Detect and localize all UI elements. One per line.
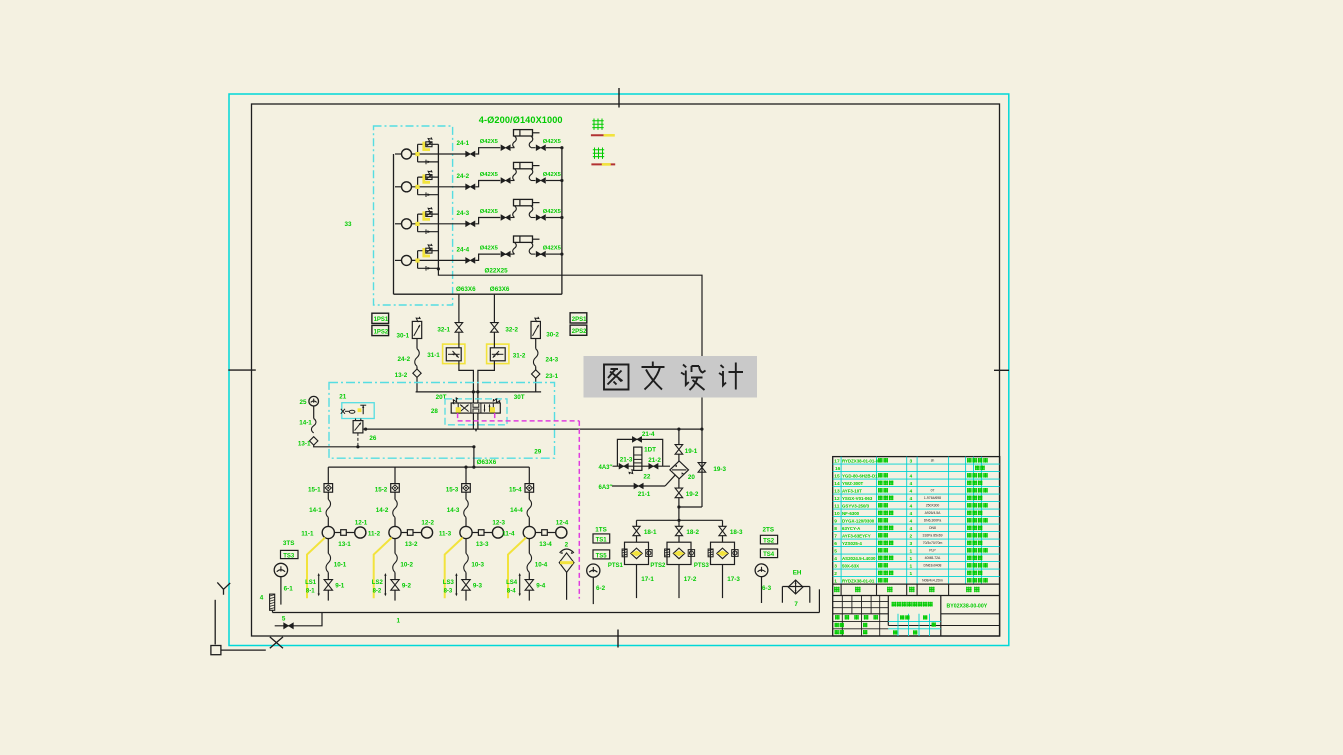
valve 19-2	[675, 488, 683, 498]
svg-text:20: 20	[688, 474, 696, 481]
valve 21-4	[632, 437, 641, 442]
flow indicator 30-1	[412, 321, 421, 338]
pressure switch box 1PS2	[372, 325, 389, 335]
svg-text:7: 7	[794, 601, 798, 608]
valve 26	[353, 421, 363, 433]
wire 3	[722, 536, 724, 543]
coupling 13-1	[334, 532, 340, 534]
svg-text:4: 4	[910, 481, 913, 487]
wire filter col 2	[678, 520, 680, 526]
pump outlet wire 1	[438, 153, 465, 155]
svg-text:LS2: LS2	[372, 580, 384, 586]
svg-text:1: 1	[834, 578, 837, 584]
svg-text:RYDZX38-01-01: RYDZX38-01-01	[842, 578, 875, 583]
svg-text:AYF3-63EYFY: AYF3-63EYFY	[842, 533, 871, 538]
svg-text:15-3: 15-3	[446, 486, 459, 493]
legend char 2	[593, 148, 604, 159]
svg-text:BY02X38-00-00Y: BY02X38-00-00Y	[947, 603, 988, 609]
svg-text:1TS: 1TS	[595, 527, 607, 534]
wire step 2	[475, 181, 500, 187]
svg-text:13-1: 13-1	[298, 441, 311, 448]
wire valve 28 to tank manifold	[473, 447, 475, 467]
valve 9-1	[324, 580, 332, 591]
yellow LS highlight 4	[508, 538, 526, 599]
tank pipe 1	[272, 610, 274, 612]
solenoid valve 22	[634, 447, 642, 470]
valve 28 bottom wires	[472, 413, 474, 429]
yellow junction mark 3	[415, 222, 419, 226]
svg-text:1PS2: 1PS2	[374, 329, 389, 335]
svg-text:9-4: 9-4	[536, 583, 546, 590]
wire 2c	[394, 572, 396, 579]
svg-text:23-1: 23-1	[546, 373, 559, 380]
svg-text:17-1: 17-1	[641, 576, 654, 583]
svg-text:3: 3	[910, 541, 913, 547]
yellow LS highlight 2	[374, 538, 392, 599]
filter 15-4	[525, 484, 534, 493]
gauge 6-3	[755, 564, 768, 577]
svg-text:29: 29	[534, 448, 542, 455]
wire 2d	[394, 590, 396, 600]
valve hand 2c	[536, 178, 545, 183]
pilot check valve 31-1 yellow highlight	[443, 344, 465, 364]
svg-text:30T: 30T	[514, 394, 525, 401]
title block small texts	[835, 615, 840, 620]
hose 24-3	[533, 349, 538, 367]
valve 19-3	[698, 463, 706, 473]
svg-text:RYDZX38-01-01-01: RYDZX38-01-01-01	[842, 458, 881, 463]
pilot magenta wire vertical	[578, 421, 580, 599]
junction dot relief bus	[437, 267, 440, 270]
svg-text:PTS3: PTS3	[694, 563, 710, 569]
air breather 2	[560, 549, 574, 553]
svg-text:4: 4	[910, 526, 913, 532]
svg-text:4: 4	[910, 503, 913, 509]
check valve arrow 2	[428, 193, 431, 196]
svg-text:316Pa 85x69: 316Pa 85x69	[923, 534, 943, 538]
svg-text:33: 33	[345, 221, 353, 228]
tank manifold wire O63X6	[328, 466, 529, 468]
hydraulic motor 11-1	[322, 526, 334, 538]
shutoff valve 32-2	[491, 323, 499, 333]
svg-text:DN6,300Pa: DN6,300Pa	[924, 519, 942, 523]
wire 4d	[528, 590, 530, 600]
svg-text:11-2: 11-2	[368, 531, 381, 538]
charge line wire	[613, 465, 671, 467]
svg-text:24-2: 24-2	[457, 173, 470, 180]
wire	[313, 406, 315, 419]
svg-text:11: 11	[834, 503, 839, 509]
X axis line	[221, 649, 266, 651]
svg-text:8: 8	[834, 526, 837, 532]
svg-text:YGD-80-6H2B-D1: YGD-80-6H2B-D1	[842, 473, 878, 478]
svg-text:YWZ-300T: YWZ-300T	[842, 481, 864, 486]
relief loop wire 1	[417, 144, 419, 162]
legend line 1 red	[591, 134, 615, 136]
svg-text:4: 4	[260, 595, 264, 602]
svg-text:70/3x70/70m: 70/3x70/70m	[923, 541, 943, 545]
svg-text:2: 2	[910, 533, 913, 539]
wire step 1	[475, 148, 500, 154]
svg-text:11-4: 11-4	[502, 531, 515, 538]
hose 10-3	[464, 553, 469, 572]
svg-text:Ø63X6: Ø63X6	[490, 286, 510, 293]
svg-text:LS4: LS4	[506, 580, 518, 586]
svg-text:15-2: 15-2	[375, 486, 388, 493]
valve hand 1b	[501, 145, 510, 150]
wire 3	[465, 492, 467, 499]
pilot magenta wire right	[494, 413, 496, 421]
svg-text:Ø42X5: Ø42X5	[480, 139, 499, 145]
title block	[887, 596, 889, 626]
relief valve RV3	[426, 212, 432, 217]
svg-text:24-2: 24-2	[398, 356, 411, 363]
manifold wire top	[416, 391, 541, 393]
svg-text:2PS1: 2PS1	[572, 317, 587, 323]
valve hand 3c	[536, 215, 545, 220]
valve 21-2	[649, 464, 658, 469]
svg-text:TS4: TS4	[763, 552, 775, 558]
LS sensor line 1	[318, 575, 320, 594]
centering tick bottom	[617, 630, 619, 648]
bypass wire 19-3	[679, 506, 702, 508]
hose left cylinder 3	[511, 217, 515, 219]
hose 10-4	[527, 553, 532, 572]
check valve arrow 1	[428, 161, 431, 164]
svg-text:3TS: 3TS	[283, 540, 295, 547]
svg-text:PTS2: PTS2	[650, 563, 666, 569]
gauge 6-2	[587, 564, 600, 577]
wire step 4	[475, 254, 500, 260]
svg-text:12-2: 12-2	[421, 520, 434, 527]
hose 14-1	[326, 499, 331, 517]
svg-text:Ø42X5: Ø42X5	[480, 245, 499, 251]
svg-text:13-2: 13-2	[395, 372, 408, 379]
svg-text:Ø42X5: Ø42X5	[480, 209, 499, 215]
svg-text:17-2: 17-2	[684, 576, 697, 583]
svg-text:A926/4.5A: A926/4.5A	[925, 511, 942, 515]
border frame cyan	[229, 94, 1009, 646]
valve 19-1	[675, 445, 683, 455]
wire 6-1	[280, 577, 282, 605]
svg-text:24-3: 24-3	[457, 210, 470, 217]
pump P1	[402, 149, 412, 159]
valve 21 internals	[341, 409, 345, 414]
valve 28 right spring W	[493, 399, 499, 403]
drawing title text	[892, 602, 897, 607]
yellow LS highlight 3	[445, 538, 463, 599]
check valve arrow 3	[428, 230, 431, 233]
hose 14-4	[527, 499, 532, 517]
wire	[535, 366, 537, 369]
svg-text:14: 14	[834, 481, 840, 487]
border frame inner black	[252, 104, 1000, 636]
svg-text:AYF3-10T: AYF3-10T	[842, 488, 862, 493]
wire step 3	[475, 218, 500, 224]
origin box	[211, 646, 221, 655]
right cylinder bus wire	[561, 148, 563, 295]
svg-text:Ø42X5: Ø42X5	[543, 209, 562, 215]
svg-text:DN63x0408: DN63x0408	[924, 564, 942, 568]
svg-text:17-3: 17-3	[727, 576, 740, 583]
svg-text:28: 28	[431, 408, 439, 415]
wire	[678, 498, 680, 521]
svg-text:19-1: 19-1	[685, 448, 698, 455]
relief loop wire 3	[417, 214, 419, 232]
wire	[678, 479, 680, 488]
return manifold wire	[637, 519, 723, 521]
hose 24-2	[415, 349, 420, 367]
temp sensor box TS3	[281, 550, 299, 558]
svg-text:10-4: 10-4	[535, 562, 548, 569]
valve 9-4	[525, 580, 533, 591]
svg-text:5: 5	[282, 616, 286, 623]
centering tick left	[228, 369, 256, 371]
svg-text:4: 4	[910, 488, 913, 494]
pump outlet wire 4	[438, 259, 465, 261]
hose 14-2	[393, 499, 398, 517]
valve 18-3	[719, 526, 726, 535]
wire 4c	[528, 572, 530, 579]
valve hand 3a	[466, 221, 475, 226]
svg-text:1-9764/698: 1-9764/698	[924, 496, 941, 500]
wire drop 2 O63X6	[493, 294, 495, 323]
wire below filter 3	[722, 565, 724, 599]
svg-text:TS1: TS1	[596, 538, 608, 544]
LS sensor line 2	[384, 575, 386, 594]
wire to bus 3	[546, 217, 562, 219]
watermark text tu wen she ji	[604, 365, 629, 390]
pressure switch box 2PS1	[570, 313, 587, 323]
svg-text:10: 10	[834, 511, 840, 517]
temp sensor box TS5	[593, 550, 610, 559]
svg-text:12-4: 12-4	[556, 520, 569, 527]
svg-text:1: 1	[910, 556, 913, 562]
svg-text:7: 7	[834, 533, 837, 539]
svg-text:12-3: 12-3	[492, 520, 505, 527]
wire to bus 4	[546, 253, 562, 255]
charge loop 21-4 wire	[617, 439, 662, 466]
motor 12-3	[492, 527, 503, 538]
svg-text:9-2: 9-2	[402, 583, 412, 590]
hose 10-1	[326, 553, 331, 572]
svg-text:6-1: 6-1	[284, 586, 294, 593]
wire to bus 2	[546, 180, 562, 182]
svg-text:40M8-72A: 40M8-72A	[925, 556, 941, 560]
wire column 2	[394, 467, 396, 484]
svg-text:22: 22	[643, 473, 651, 480]
yellow junction mark 1	[415, 152, 419, 156]
wire 31-2 out	[478, 361, 495, 403]
svg-text:10-1: 10-1	[334, 562, 347, 569]
relief loop wire 4	[417, 251, 419, 269]
wire 31-1 in	[458, 332, 460, 348]
wire 2	[394, 492, 396, 499]
svg-text:8-2: 8-2	[373, 589, 382, 595]
svg-text:Ø63X6: Ø63X6	[456, 286, 476, 293]
svg-text:1: 1	[397, 618, 401, 625]
directional valve 28 body	[451, 403, 500, 413]
relief valve yellow highlight 2	[424, 174, 430, 182]
svg-text:1PS1: 1PS1	[374, 317, 389, 323]
svg-text:1: 1	[910, 571, 913, 577]
svg-text:4: 4	[910, 511, 913, 517]
valve 18-1	[633, 526, 640, 535]
svg-text:21-1: 21-1	[638, 491, 651, 498]
svg-text:14-1: 14-1	[309, 507, 322, 514]
wire column 1	[327, 467, 329, 484]
wire 4b	[528, 517, 530, 526]
svg-text:LS1: LS1	[305, 580, 317, 586]
svg-text:07: 07	[931, 489, 935, 493]
svg-text:LS3: LS3	[443, 580, 455, 586]
hose left cylinder 2	[511, 180, 515, 182]
svg-text:8-3: 8-3	[444, 589, 453, 595]
svg-text:31-1: 31-1	[427, 352, 440, 359]
svg-text:250X300: 250X300	[926, 504, 940, 508]
cylinder 24-4	[514, 236, 533, 242]
motor 12-2	[421, 527, 432, 538]
wire below filter 2	[678, 565, 680, 599]
valve 28 parallel arrows	[484, 404, 486, 411]
reducing valve box 21 cyan	[342, 403, 374, 419]
svg-text:13-1: 13-1	[338, 541, 351, 548]
wire gauge branch to drain	[314, 445, 474, 447]
directional valve 28 dashed cyan box	[445, 399, 507, 425]
motor 12-1	[355, 527, 366, 538]
branch wire right	[535, 339, 537, 349]
valve 5	[284, 623, 294, 629]
svg-text:15-1: 15-1	[308, 486, 321, 493]
wire	[535, 378, 537, 392]
wire to bus 1	[546, 147, 562, 149]
svg-text:9-3: 9-3	[473, 583, 483, 590]
yellow LS highlight 1	[307, 538, 325, 599]
heat exchanger EH symbol	[788, 580, 803, 594]
pilot check valve 31-1	[446, 348, 461, 361]
svg-text:1: 1	[910, 563, 913, 569]
svg-text:8-4: 8-4	[507, 589, 516, 595]
pump P3	[402, 219, 412, 229]
svg-text:2TS: 2TS	[763, 527, 775, 534]
diamond fitting 23-1	[532, 370, 540, 378]
svg-text:13-2: 13-2	[405, 541, 418, 548]
LS sensor line 3	[455, 575, 457, 594]
svg-text:2: 2	[565, 542, 569, 549]
wire 4	[528, 492, 530, 499]
wire below motor 3	[465, 539, 467, 554]
coupling 13-4	[535, 532, 541, 534]
wire y429 junction dots	[677, 428, 680, 431]
temp sensor box TS2	[760, 535, 777, 544]
svg-text:30-1: 30-1	[397, 333, 410, 340]
svg-text:9: 9	[834, 518, 837, 524]
svg-text:4: 4	[910, 496, 913, 502]
svg-text:21-4: 21-4	[642, 431, 655, 438]
svg-text:6A3″: 6A3″	[599, 485, 613, 491]
pump outlet wire 2	[438, 186, 465, 188]
wire 3d	[465, 590, 467, 600]
hose left cylinder 4	[511, 253, 515, 255]
shutoff valve 32-1	[455, 323, 463, 333]
svg-text:31-2: 31-2	[513, 353, 526, 360]
svg-text:25: 25	[300, 399, 308, 406]
svg-text:26: 26	[369, 435, 377, 442]
branch wire left	[416, 339, 418, 349]
legend line 2 red	[591, 163, 615, 165]
wire 1b	[327, 517, 329, 526]
relief valve yellow highlight 4	[424, 248, 430, 256]
relief valve RV1	[426, 142, 432, 147]
valve hand 4c	[536, 251, 545, 256]
svg-text:32-1: 32-1	[437, 327, 450, 334]
svg-text:16: 16	[835, 466, 841, 472]
wire 3c	[465, 572, 467, 579]
pilot dashed wire 26	[357, 433, 359, 447]
tank pipe riser	[818, 589, 820, 612]
wire filter col 3	[722, 520, 724, 526]
svg-text:19-2: 19-2	[686, 491, 699, 498]
diamond fitting 13-2	[413, 369, 421, 377]
hose 14-3	[464, 499, 469, 517]
wire 1d	[327, 590, 329, 600]
legend char 1	[592, 119, 603, 130]
svg-text:3: 3	[834, 563, 837, 569]
accumulator feed wire	[678, 429, 680, 445]
svg-text:YSGX-V01-063: YSGX-V01-063	[842, 496, 873, 501]
valve 28 solenoid yellow left	[456, 407, 461, 412]
relief valve yellow highlight 3	[424, 211, 430, 219]
relief valve RV2	[426, 175, 432, 180]
svg-text:30-2: 30-2	[546, 332, 559, 339]
valve hand 4a	[466, 258, 475, 263]
hydraulic motor 11-2	[389, 526, 401, 538]
wire	[678, 454, 680, 461]
lower charge wire	[612, 485, 665, 487]
svg-text:10-3: 10-3	[471, 562, 484, 569]
motor 12-4	[556, 527, 567, 538]
wire 1c	[327, 572, 329, 579]
watermark box	[584, 356, 758, 398]
wire column 3	[465, 467, 467, 484]
svg-text:13-3: 13-3	[476, 541, 489, 548]
svg-text:YZS025-4: YZS025-4	[842, 541, 862, 546]
svg-text:Ø42X5: Ø42X5	[543, 139, 562, 145]
diagonal wire to filter 20	[665, 475, 675, 486]
relief loop wire 2	[417, 177, 419, 195]
temp sensor box TS1	[593, 534, 610, 543]
parts table grid	[833, 457, 1000, 584]
valve hand 4b	[501, 251, 510, 256]
svg-text:N08/4x4,2Dm: N08/4x4,2Dm	[922, 579, 943, 583]
valve 28 solenoid yellow right	[490, 407, 495, 412]
valve 9-2	[391, 580, 399, 591]
relief valve RV4	[426, 248, 432, 253]
svg-text:8-1: 8-1	[306, 589, 315, 595]
valve hand 2b	[501, 178, 510, 183]
gauge 6-1	[274, 563, 287, 576]
svg-text:9-1: 9-1	[335, 583, 345, 590]
pump outlet wire 3	[438, 223, 465, 225]
yellow junction mark 4	[415, 258, 419, 262]
pilot magenta wire left	[457, 413, 459, 421]
wire 1	[636, 536, 638, 543]
svg-text:GSYV3-250/3: GSYV3-250/3	[842, 503, 870, 508]
valve 28 crossed arrows	[460, 405, 468, 412]
svg-text:6-3: 6-3	[762, 585, 772, 592]
svg-text:21: 21	[339, 394, 347, 401]
svg-text:5: 5	[834, 548, 837, 554]
